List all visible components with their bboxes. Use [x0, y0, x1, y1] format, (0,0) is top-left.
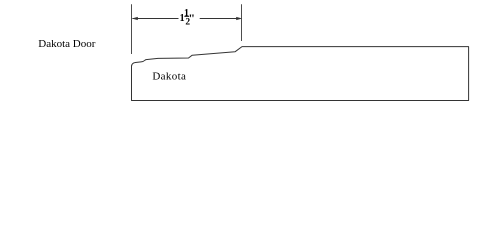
svg-text:Dakota Door: Dakota Door — [38, 38, 95, 50]
dimension text 1 1/2 inch — [180, 8, 195, 27]
dimension line right segment — [200, 18, 241, 20]
extension line right — [241, 4, 243, 41]
dimension line left segment — [133, 18, 179, 20]
extension line left — [131, 4, 133, 54]
arrowhead left — [132, 17, 138, 20]
door profile outline — [132, 47, 469, 101]
svg-text:": " — [188, 11, 195, 25]
svg-text:Dakota: Dakota — [152, 71, 186, 83]
arrowhead right — [236, 17, 242, 20]
